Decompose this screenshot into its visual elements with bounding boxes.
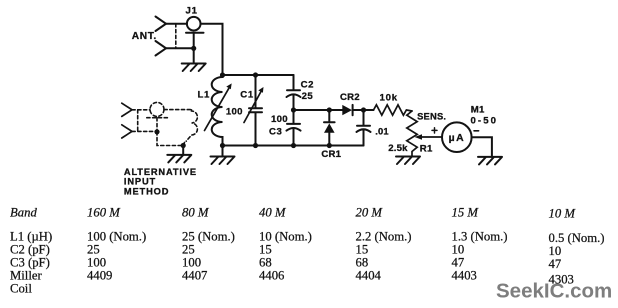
connector J1 [187, 17, 201, 31]
capacitor .01 [357, 110, 371, 146]
svg-text:25: 25 [302, 91, 314, 102]
table row Miller Coil [10, 269, 574, 296]
svg-text:L1 (µH): L1 (µH) [10, 230, 52, 244]
dashed wire jack to coil [164, 109, 192, 111]
svg-text:2.2 (Nom.): 2.2 (Nom.) [356, 230, 412, 244]
J1 sleeve contact bar [186, 32, 204, 34]
potentiometer R1 [407, 111, 417, 157]
capacitor C2 [287, 75, 301, 110]
svg-text:100: 100 [87, 256, 106, 270]
svg-text:47: 47 [452, 256, 465, 270]
wire mid rail [294, 109, 374, 111]
antenna arrow bottom [156, 41, 167, 56]
svg-text:Band: Band [10, 206, 37, 220]
svg-text:L1: L1 [198, 90, 210, 101]
ground (tank) [211, 157, 235, 165]
svg-text:10: 10 [549, 244, 562, 258]
svg-text:25: 25 [87, 243, 100, 257]
capacitor C1 (variable) [249, 75, 262, 146]
dashed wire sleeve to node [156, 118, 158, 132]
svg-text:4407: 4407 [182, 269, 207, 283]
node L1 bottom [220, 143, 225, 148]
node CR1 top [327, 107, 332, 112]
svg-text:R1: R1 [420, 143, 433, 154]
svg-text:100: 100 [182, 256, 201, 270]
node C1 top [253, 72, 258, 77]
table header row [10, 206, 576, 221]
svg-text:C3: C3 [269, 127, 282, 138]
svg-text:10 M: 10 M [549, 207, 577, 221]
svg-text:Coil: Coil [10, 282, 32, 296]
meter M1 [442, 122, 472, 152]
svg-text:4409: 4409 [87, 269, 112, 283]
wire alt node to ground [182, 146, 184, 155]
svg-text:25: 25 [182, 243, 195, 257]
dashed wire arrow to jack [132, 109, 150, 111]
svg-text:4403: 4403 [452, 269, 477, 283]
svg-text:Miller: Miller [10, 269, 42, 283]
svg-text:10k: 10k [380, 92, 398, 103]
label minus [474, 130, 479, 132]
svg-text:20 M: 20 M [356, 206, 384, 220]
svg-text:C1: C1 [240, 90, 254, 101]
node alt jack sleeve [154, 129, 159, 134]
svg-text:100: 100 [226, 107, 243, 118]
wire rail to ground [222, 146, 224, 157]
svg-text:CR2: CR2 [340, 92, 360, 103]
inductor L1 [212, 75, 223, 146]
dashed coil to ground node [183, 143, 184, 146]
svg-text:ALTERNATIVE: ALTERNATIVE [124, 167, 197, 177]
svg-text:15 M: 15 M [452, 206, 480, 220]
node CR2 cathode [361, 107, 366, 112]
svg-text:68: 68 [356, 256, 369, 270]
ground (antenna) [182, 64, 206, 72]
dashed wire node down [157, 132, 183, 146]
svg-text:15: 15 [259, 243, 272, 257]
dashed connector circle [150, 102, 164, 116]
svg-text:INPUT: INPUT [124, 177, 156, 187]
svg-text:1.3 (Nom.): 1.3 (Nom.) [452, 230, 508, 244]
svg-text:10 (Nom.): 10 (Nom.) [259, 230, 312, 244]
table row L1 [10, 230, 605, 246]
svg-text:0.5 (Nom.): 0.5 (Nom.) [549, 231, 605, 245]
svg-text:47: 47 [549, 257, 562, 271]
node alt ground [181, 143, 186, 148]
capacitor C3 [287, 110, 301, 146]
alternative input: antenna arrow top [122, 103, 132, 116]
svg-text:100 (Nom.): 100 (Nom.) [87, 230, 146, 244]
svg-text:C2: C2 [301, 79, 314, 90]
ground (alternative) [167, 155, 191, 163]
svg-text:40 M: 40 M [259, 206, 287, 220]
svg-text:15: 15 [356, 243, 369, 257]
svg-text:C3 (pF): C3 (pF) [10, 256, 50, 270]
dashed sleeve bar [147, 117, 170, 119]
node C2 C3 [291, 107, 296, 112]
svg-text:.01: .01 [375, 126, 389, 137]
svg-text:C2 (pF): C2 (pF) [10, 243, 50, 257]
wire meter to ground [472, 137, 492, 157]
node CR1 bottom [327, 143, 332, 148]
label + [432, 128, 437, 133]
dashed feedline tie [175, 24, 177, 49]
table row C3 [10, 256, 561, 272]
wire node to ground [193, 48, 195, 63]
C1 variable arrow [244, 92, 261, 123]
R1 wiper arrow [421, 136, 442, 138]
svg-text:µA: µA [449, 133, 466, 144]
svg-text:2.5k: 2.5k [388, 143, 408, 154]
node C3 bottom [291, 143, 296, 148]
dashed wire bottom arrow to node [132, 130, 157, 132]
svg-text:ANT.: ANT. [132, 31, 157, 42]
table row C2 [10, 243, 561, 259]
svg-text:25 (Nom.): 25 (Nom.) [182, 230, 235, 244]
dashed link coil [186, 110, 197, 141]
svg-text:SENS.: SENS. [417, 111, 446, 122]
node C1 bottom [253, 143, 258, 148]
node L1 top [220, 72, 225, 77]
wire J1 to tank top [201, 24, 223, 75]
svg-text:160 M: 160 M [87, 206, 121, 220]
dashed feedline tie [137, 110, 139, 132]
svg-text:4406: 4406 [259, 269, 284, 283]
junction node antenna ground [191, 46, 196, 51]
svg-text:M1: M1 [471, 105, 485, 116]
svg-text:4404: 4404 [356, 269, 382, 283]
resistor 10k [374, 105, 413, 115]
diode CR1 [324, 110, 335, 146]
svg-text:J1: J1 [186, 6, 198, 17]
L1 variable arrow [205, 89, 229, 131]
svg-text:68: 68 [259, 256, 272, 270]
svg-text:SeekIC.com: SeekIC.com [496, 280, 612, 303]
svg-text:METHOD: METHOD [124, 187, 169, 197]
ground (R1) [396, 157, 420, 165]
alternative input: antenna arrow bottom [122, 125, 132, 138]
ground (meter) [478, 157, 502, 165]
svg-text:CR1: CR1 [321, 149, 341, 160]
antenna arrow top [156, 17, 167, 32]
svg-text:80 M: 80 M [182, 206, 210, 220]
svg-text:100: 100 [271, 114, 288, 125]
svg-text:10: 10 [452, 243, 465, 257]
svg-text:0-50: 0-50 [471, 116, 499, 127]
wire top rail [223, 74, 294, 76]
wire sleeve to node [193, 33, 195, 49]
wire bottom rail [223, 145, 364, 147]
diode CR2 [342, 105, 352, 115]
wire bottom arrow to node [166, 47, 194, 49]
wire antenna to J1 [166, 23, 187, 25]
